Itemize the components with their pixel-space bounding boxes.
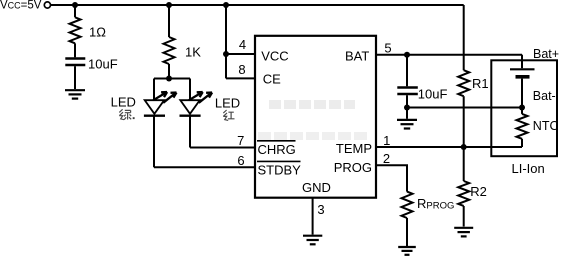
wire bat minus line (407, 107, 522, 109)
resistor 1 ohm (70, 17, 81, 43)
svg-text:10uF: 10uF (418, 86, 448, 101)
wire C2 top lead (406, 55, 408, 87)
wire LED anode rail (154, 78, 190, 80)
watermark faint row1 (269, 100, 355, 109)
wire GND pin3 drop (312, 198, 314, 235)
svg-text:R1: R1 (472, 76, 489, 91)
label red hanzi (223, 110, 234, 120)
svg-text:7: 7 (237, 133, 244, 148)
svg-text:PROG: PROG (334, 160, 372, 175)
junction dot top rail / R 1ohm (72, 2, 78, 8)
junction dot pin4 tee (223, 51, 229, 57)
junction dot top rail / 1K (166, 2, 172, 8)
svg-text:NTC: NTC (533, 119, 559, 133)
svg-text:CE: CE (263, 72, 281, 87)
resistor R 1K (164, 37, 175, 64)
svg-text:CHRG: CHRG (258, 142, 296, 157)
ground symbol under pin3 (303, 236, 322, 245)
wire C2 bottom lead (406, 95, 408, 107)
wire 1ohm top lead (74, 5, 76, 17)
LED green symbol (144, 92, 177, 116)
resistor R2 (458, 181, 469, 206)
wire NTC bottom lead (521, 139, 523, 147)
wire 1K bottom lead (168, 64, 170, 79)
wire pin5 BAT rail (376, 54, 522, 56)
wire BAT down into battery (521, 55, 523, 68)
junction dot batminus / NTC (519, 105, 525, 111)
capacitor C2 10uF right (397, 88, 418, 95)
svg-text:3: 3 (317, 202, 324, 217)
wire battery minus lead (521, 79, 523, 108)
wire left LED cathode drop (153, 116, 155, 168)
watermark faint row2 (258, 132, 367, 140)
wire pin8 stub (226, 77, 255, 79)
label green hanzi (119, 109, 134, 119)
ground symbol under R2 (454, 228, 473, 237)
ground symbol under RPROG (398, 247, 416, 255)
wire R2 to ground (463, 206, 465, 227)
junction dot top rail / pin4 drop (223, 2, 229, 8)
svg-text:Bat+: Bat+ (533, 47, 559, 61)
svg-text:6: 6 (237, 153, 244, 168)
wire cap to ground (74, 66, 76, 89)
battery box LI-Ion (491, 60, 557, 156)
svg-text:LED: LED (215, 95, 240, 110)
svg-text:GND: GND (302, 180, 331, 195)
svg-text:LI-Ion: LI-Ion (512, 161, 545, 176)
wire pin2 PROG stub (376, 165, 407, 191)
wire left LED anode drop (153, 79, 155, 101)
svg-text:2: 2 (383, 151, 390, 166)
svg-text:5: 5 (384, 40, 391, 55)
svg-text:VCC=5V: VCC=5V (0, 0, 42, 12)
capacitor C 10uF left (65, 59, 85, 66)
op-amp U1 charger IC body (255, 36, 376, 198)
wire C2 to ground (406, 108, 408, 119)
wire NTC top lead (521, 108, 523, 114)
ground symbol under C2 (397, 120, 417, 129)
svg-text:Bat-: Bat- (533, 89, 556, 103)
svg-text:VCC: VCC (261, 48, 288, 63)
thermistor NTC (517, 114, 528, 139)
wire right LED anode drop (189, 79, 191, 101)
wire R2 top lead (463, 147, 465, 181)
pin label STDBY with overline (257, 161, 301, 177)
resistor R1 (458, 70, 469, 96)
svg-text:1K: 1K (185, 45, 201, 60)
wire RPROG to ground (406, 218, 408, 246)
wire right LED cathode drop (189, 116, 191, 148)
svg-text:TEMP: TEMP (336, 141, 372, 156)
svg-text:STDBY: STDBY (258, 162, 302, 177)
svg-text:8: 8 (238, 62, 245, 77)
svg-text:10uF: 10uF (88, 57, 118, 72)
svg-text:1: 1 (383, 133, 390, 148)
battery cell symbol (510, 69, 535, 78)
junction dot LED anode tee (166, 76, 172, 82)
wire 1ohm to C 10uF (74, 43, 76, 57)
wire pin4/8 drop (225, 5, 227, 78)
wire 1K top lead (168, 5, 170, 37)
wire pin7 CHRG (190, 147, 255, 149)
svg-text:LED: LED (111, 95, 136, 110)
svg-text:4: 4 (239, 37, 246, 52)
junction dot TEMP divider (461, 144, 467, 150)
junction dot BAT / C2 (404, 52, 410, 58)
wire pin4 stub (226, 53, 255, 55)
LED red symbol (180, 92, 213, 116)
junction dot C2 / batminus line (404, 105, 410, 111)
wire pin6 STDBY (154, 166, 255, 168)
svg-text:R2: R2 (470, 184, 487, 199)
wire R1 column from top rail (463, 5, 465, 70)
wire pin1 TEMP line (376, 146, 522, 148)
wire top rail (51, 4, 464, 6)
wire R1 bottom to TEMP line (463, 96, 465, 147)
svg-text:BAT: BAT (345, 48, 369, 63)
svg-text:1Ω: 1Ω (89, 25, 106, 40)
ground symbol left (65, 90, 85, 98)
resistor RPROG (402, 192, 413, 218)
pin label CHRG with overline (257, 141, 296, 157)
terminal circle VCC (44, 2, 50, 8)
